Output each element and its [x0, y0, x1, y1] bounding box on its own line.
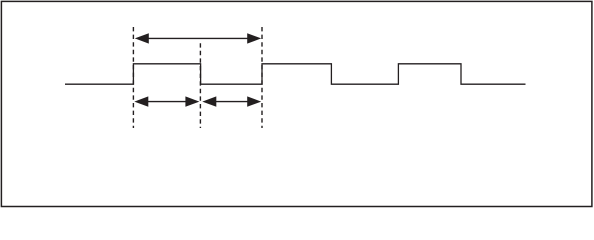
node T3 dashed reference line (right) [261, 27, 263, 128]
node T1 dashed reference line (left) [132, 27, 134, 128]
dimension arrow (low time, bottom right) [202, 96, 261, 106]
dimension arrow (period, top) [135, 33, 261, 43]
waveform signal trace [65, 64, 526, 84]
dimension arrow (high time, bottom left) [134, 96, 199, 106]
node T2 dashed reference line (middle) [199, 43, 201, 128]
